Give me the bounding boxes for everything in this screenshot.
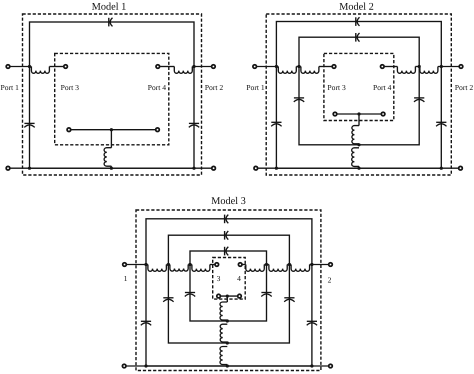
inductor left inner series (Model 2) (301, 67, 319, 74)
junction bottom-left corner (Model 3) (144, 364, 147, 367)
wire coil1 to inner bottom (Model 2) (358, 144, 360, 146)
junction coil / bottom rail (Model 3) (226, 364, 229, 367)
label Port 2 (Model 2) (455, 85, 473, 90)
ground terminal circle bottom-right (Model 1) (212, 166, 216, 170)
Model 3 coupling loop 2 (middle solid rectangle) (168, 235, 289, 343)
capacitor loop3-right shunt (Model 3) (261, 293, 271, 297)
junction inner-right rail (Model 2) (418, 65, 421, 68)
title Model 3 (211, 197, 245, 204)
series coupling capacitor loop1 (Model 3) (225, 215, 229, 224)
label Port 3 (Model 2) (328, 85, 346, 90)
capacitor loop1-left shunt (Model 3) (141, 321, 151, 325)
port 1 terminal circle (Model 1) (6, 65, 10, 69)
capacitor outer-left shunt (Model 2) (271, 122, 281, 126)
junction outer-left rail (Model 2) (275, 65, 278, 68)
inductor right series c (Model 3) (246, 265, 264, 272)
inductor right outer series (Model 2) (420, 67, 438, 74)
label Port 3 (Model 1) (61, 85, 79, 90)
wire tee horizontal (Model 3) (221, 295, 237, 297)
label Port 1 (Model 1) (1, 85, 19, 90)
wire coil-c to bottom rail (Model 3) (226, 365, 228, 367)
inductor left series b (Model 3) (170, 265, 188, 272)
junction coil / inner bottom rail (Model 2) (357, 143, 360, 146)
port 6 terminal circle (Model 2 tee right) (381, 112, 385, 116)
junction tee center (Model 3) (226, 295, 229, 298)
inductor right series (Model 1) (174, 67, 192, 74)
wire between left inductors (Model 2) (296, 66, 301, 68)
wire inductor to port3 (Model 3) (210, 264, 215, 266)
junction right rail / port wire (Model 1) (192, 65, 195, 68)
wire coil2 to bottom rail (Model 2) (358, 166, 360, 168)
junction coil / bottom rail (Model 2) (357, 167, 360, 170)
junction bottom-right corner (Model 1) (192, 167, 195, 170)
capacitor right shunt (Model 1) (189, 123, 199, 127)
inductor center shunt (Model 1) (104, 148, 111, 166)
inductor right series a (Model 3) (291, 265, 309, 272)
wire inductor to port3 (Model 2) (319, 66, 332, 68)
Model 1 coupling loop L1 (solid rectangle) (30, 22, 195, 168)
capacitor loop3-left shunt (Model 3) (185, 293, 195, 297)
junction loop2-left rail (Model 3) (167, 263, 170, 266)
label Port 4 (Model 1) (148, 85, 166, 90)
junction coil / loop3 bottom rail (Model 3) (226, 319, 229, 322)
junction loop3-right rail (Model 3) (265, 263, 268, 266)
label 2 (Model 3) (328, 277, 331, 282)
port 4 terminal circle (Model 2) (381, 65, 385, 69)
bottom ground rail wire (Model 3) (127, 365, 329, 367)
wire between right inductors (Model 2) (415, 66, 420, 68)
Model 3 coupling loop 3 (inner solid rectangle) (190, 251, 267, 321)
label 4 (Model 3) (237, 276, 241, 281)
junction loop2-right rail (Model 3) (288, 263, 291, 266)
capacitor loop2-left shunt (Model 3) (163, 298, 173, 302)
inductor center shunt upper (Model 2) (352, 126, 359, 144)
junction coil / bottom rail (Model 1) (110, 167, 113, 170)
inductor left outer series (Model 2) (278, 67, 296, 74)
ground terminal circle bottom-left (Model 3) (122, 364, 126, 368)
Model 2 outer dashed boundary box (266, 14, 451, 175)
junction outer-right rail (Model 2) (440, 65, 443, 68)
junction tee center (Model 1) (110, 128, 113, 131)
junction inner-left rail (Model 2) (297, 65, 300, 68)
port 2 terminal circle (Model 1) (212, 65, 216, 69)
inductor center shunt a (Model 3) (220, 302, 227, 320)
port 4 terminal circle (Model 1) (156, 65, 160, 69)
ground terminal circle bottom-left (Model 2) (254, 166, 258, 170)
wire between inductors b-c left (Model 3) (188, 264, 192, 266)
wire port4 to inductor (Model 2) (385, 66, 398, 68)
junction coil / loop2 bottom rail (Model 3) (226, 341, 229, 344)
ground terminal circle bottom-right (Model 2) (459, 166, 463, 170)
wire inductor to port2 (Model 2) (438, 66, 459, 68)
wire port4 to inductor (Model 1) (160, 66, 174, 68)
ground terminal circle bottom-right (Model 3) (329, 364, 333, 368)
capacitor loop1-right shunt (Model 3) (307, 321, 317, 325)
wire port4 to inductor (Model 3) (243, 264, 246, 266)
wire coil-a to loop3 bottom (Model 3) (226, 320, 228, 321)
wire port1 to outer rail (Model 2) (257, 66, 278, 68)
port 1 terminal circle (Model 3) (123, 263, 127, 267)
wire coil-b to loop2 bottom (Model 3) (226, 342, 228, 343)
Model 3 coupling loop 1 (outer solid rectangle) (146, 219, 312, 366)
inductor right series b (Model 3) (269, 265, 287, 272)
wire coil to bottom rail (Model 1) (110, 166, 112, 168)
port 5 terminal circle (Model 2 tee left) (333, 112, 337, 116)
port 4 terminal circle (Model 3) (238, 263, 242, 267)
inductor right inner series (Model 2) (397, 67, 415, 74)
junction loop1-left rail (Model 3) (144, 263, 147, 266)
inductor center shunt c (Model 3) (220, 347, 227, 365)
Model 1 inner dashed box (ports 3-4 region) (55, 53, 169, 144)
wire port1 to loop1 rail (Model 3) (127, 264, 148, 266)
Model 2 inner dashed box (ports 3-4 region) (324, 53, 394, 120)
wire tee down (Model 3) (226, 296, 228, 302)
port 6 terminal circle (Model 1 tee right) (156, 128, 160, 132)
port 3 terminal circle (Model 1) (64, 65, 68, 69)
wire tee horizontal (Model 2) (337, 113, 381, 115)
port 6 terminal circle (Model 3 tee right) (238, 294, 242, 298)
port 2 terminal circle (Model 3) (329, 263, 333, 267)
junction loop1-right rail (Model 3) (310, 263, 313, 266)
series coupling capacitor loop3 (Model 3) (225, 247, 229, 256)
Model 3 outer dashed boundary box (136, 210, 321, 371)
wire inductor to port2 (Model 1) (192, 66, 211, 68)
wire tee horizontal (Model 1) (71, 129, 155, 131)
wire tee down (Model 2) (358, 114, 360, 126)
Model 2 inner coupling loop (solid rectangle) (299, 37, 419, 145)
wire tee down (Model 1) (110, 130, 112, 148)
Model 2 outer coupling loop (solid rectangle) (276, 22, 441, 169)
junction bottom-right corner (Model 2) (440, 167, 443, 170)
port 2 terminal circle (Model 2) (459, 65, 463, 69)
label Port 1 (Model 2) (247, 85, 265, 90)
inductor left series c (Model 3) (192, 265, 210, 272)
junction bottom-left corner (Model 2) (275, 167, 278, 170)
junction tee center (Model 2) (357, 112, 360, 115)
capacitor outer-right shunt (Model 2) (436, 122, 446, 126)
port 1 terminal circle (Model 2) (253, 65, 257, 69)
wire inductor to port3 (Model 1) (49, 66, 63, 68)
wire port1 to L-left (Model 1) (10, 66, 31, 68)
wire between inductors c-b right (Model 3) (264, 264, 269, 266)
series coupling capacitor loop2 (Model 3) (225, 231, 229, 240)
junction left rail / port wire (Model 1) (28, 65, 31, 68)
series coupling capacitor (Model 1) (109, 18, 113, 27)
wire inductor to port2 (Model 3) (310, 264, 329, 266)
label 1 (Model 3) (124, 276, 127, 281)
wire between inductors b-a right (Model 3) (287, 264, 291, 266)
Model 3 inner dashed box (ports 3-4 region) (213, 258, 246, 300)
wire between inductors a-b left (Model 3) (166, 264, 170, 266)
capacitor inner-right shunt (Model 2) (414, 98, 424, 102)
label Port 4 (Model 2) (373, 85, 391, 90)
inductor center shunt b (Model 3) (220, 324, 227, 342)
label Port 2 (Model 1) (205, 85, 223, 90)
bottom ground rail wire (Model 2) (258, 167, 458, 169)
label 3 (Model 3) (217, 276, 220, 281)
junction loop3-left rail (Model 3) (188, 263, 191, 266)
port 5 terminal circle (Model 3 tee left) (217, 294, 221, 298)
capacitor loop2-right shunt (Model 3) (284, 298, 294, 302)
ground terminal circle bottom-left (Model 1) (6, 166, 10, 170)
capacitor inner-left shunt (Model 2) (294, 98, 304, 102)
port 3 terminal circle (Model 3) (215, 263, 219, 267)
port 5 terminal circle (Model 1 tee left) (67, 128, 71, 132)
series coupling capacitor inner loop (Model 2) (356, 33, 360, 42)
inductor left series a (Model 3) (148, 265, 166, 272)
series coupling capacitor outer loop (Model 2) (356, 17, 360, 26)
title Model 1 (92, 3, 126, 10)
inductor center shunt lower (Model 2) (352, 148, 359, 167)
capacitor left shunt (Model 1) (24, 123, 34, 127)
port 3 terminal circle (Model 2) (332, 65, 336, 69)
title Model 2 (339, 3, 373, 10)
inductor left series (Model 1) (31, 67, 49, 74)
junction bottom-left corner (Model 1) (28, 167, 31, 170)
junction bottom-right corner (Model 3) (310, 364, 313, 367)
bottom ground rail wire (Model 1) (10, 167, 211, 169)
Model 1 outer dashed boundary box (23, 14, 202, 175)
